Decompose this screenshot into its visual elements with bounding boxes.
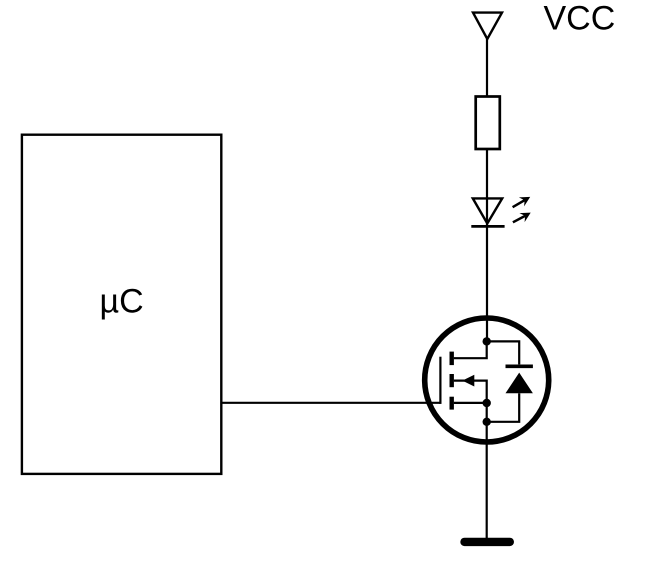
svg-text:µC: µC xyxy=(100,283,144,321)
svg-text:VCC: VCC xyxy=(544,0,616,38)
